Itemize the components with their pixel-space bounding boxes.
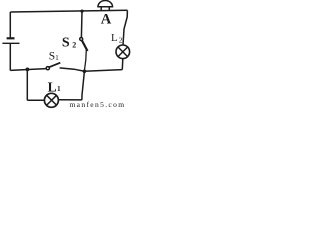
wire L2 top to corner (123, 10, 127, 45)
wire L2 bottom stub (121, 59, 124, 70)
wire drop to L1 (26, 69, 28, 100)
wire riser (82, 71, 85, 100)
wire middle left segment (10, 69, 46, 71)
switch S1 pivot (46, 67, 49, 70)
switch S1 blade (49, 63, 60, 67)
wire top (10, 10, 127, 12)
lamp L1 (44, 93, 58, 107)
wire S2 lower (84, 50, 86, 72)
battery B1 long plate (2, 42, 19, 44)
switch S2 pivot (80, 38, 83, 41)
battery B1 short plate (7, 37, 15, 39)
node junction dot left (26, 68, 30, 72)
svg-text:manfen5.com: manfen5.com (70, 100, 126, 109)
wire bottom right of L1 (59, 99, 82, 101)
ammeter A dome (98, 1, 113, 7)
node junction dot top (80, 10, 83, 13)
wire middle right segment (60, 68, 123, 71)
switch S2 blade (82, 40, 88, 51)
svg-text:A: A (101, 12, 112, 28)
lamp L2 (116, 45, 130, 59)
wire S2 upper stub (80, 11, 83, 37)
wire left upper (9, 12, 11, 38)
node junction dot right (83, 70, 87, 74)
wire left lower (9, 44, 11, 71)
wire bottom left of L1 (27, 99, 44, 101)
